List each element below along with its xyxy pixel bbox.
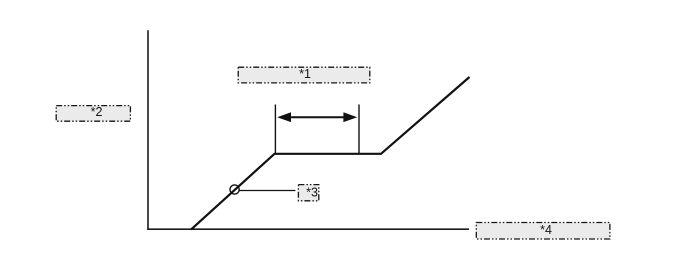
label box *1 [238, 67, 370, 83]
arrowhead left [277, 112, 291, 122]
label box *3 [298, 185, 318, 201]
double-headed arrow shaft [290, 116, 346, 118]
left extent tick [274, 105, 276, 154]
svg-text:*3: *3 [306, 186, 318, 200]
arrowhead right [343, 112, 357, 122]
svg-text:*2: *2 [91, 105, 103, 119]
label box *2 [56, 106, 130, 122]
x-axis [147, 228, 469, 230]
circle marker [230, 185, 239, 194]
y-axis [147, 30, 149, 230]
right extent tick [358, 105, 360, 154]
svg-text:*1: *1 [299, 67, 311, 81]
leader line to *3 [239, 190, 295, 192]
label box *4 [476, 223, 610, 240]
svg-text:*4: *4 [540, 223, 552, 237]
graph curve [191, 77, 470, 230]
